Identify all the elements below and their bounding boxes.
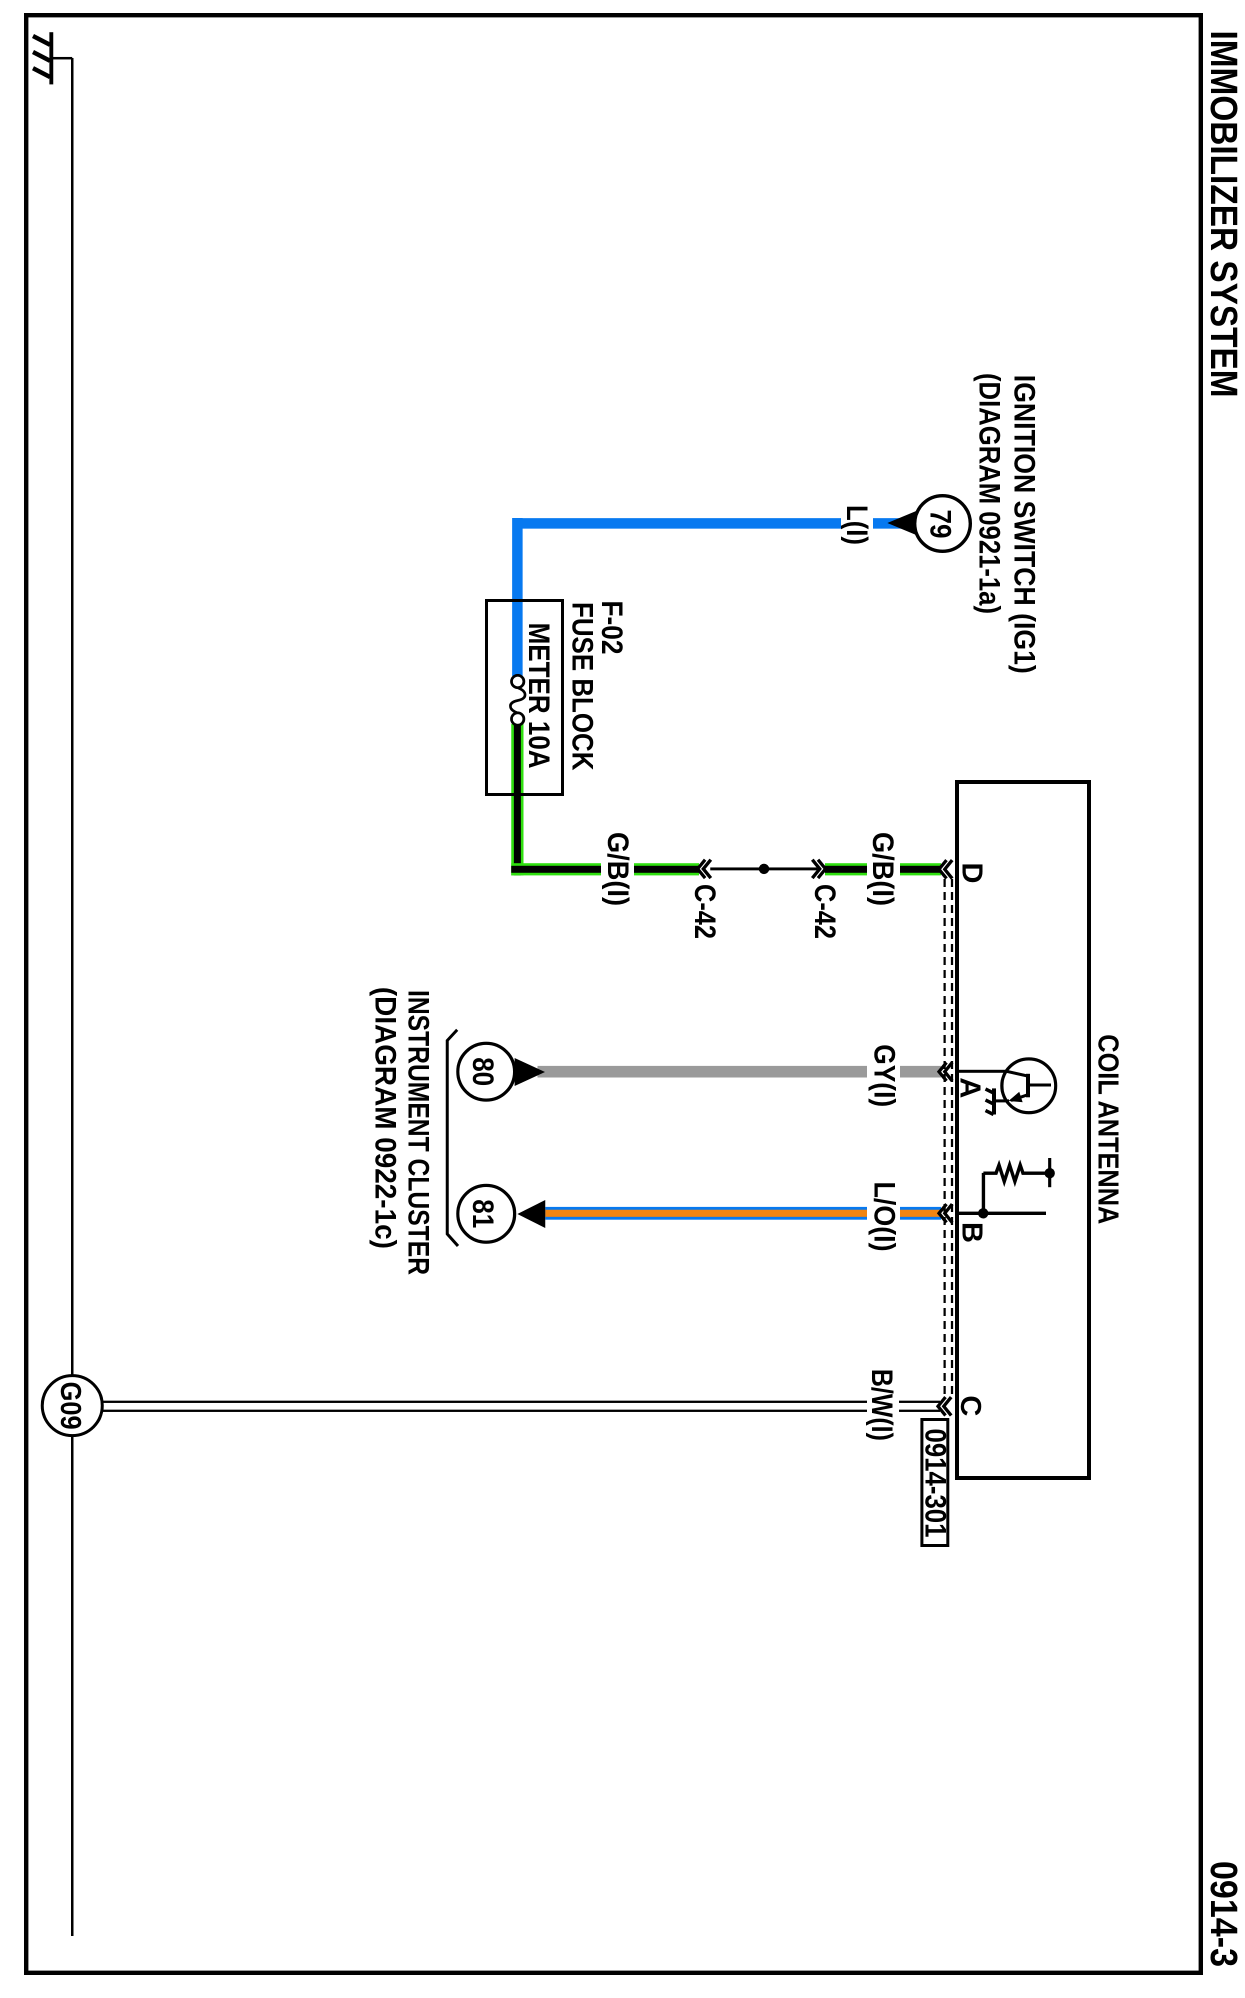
svg-text:L(I): L(I) bbox=[840, 505, 873, 545]
svg-text:COIL ANTENNA: COIL ANTENNA bbox=[1091, 1034, 1123, 1224]
svg-text:C-42: C-42 bbox=[688, 884, 721, 939]
svg-text:IMMOBILIZER SYSTEM: IMMOBILIZER SYSTEM bbox=[1202, 31, 1244, 398]
svg-text:FUSE BLOCK: FUSE BLOCK bbox=[566, 602, 599, 771]
svg-text:G09: G09 bbox=[54, 1382, 86, 1430]
svg-text:C: C bbox=[954, 1395, 986, 1416]
svg-text:GY(I): GY(I) bbox=[868, 1044, 901, 1107]
svg-text:IGNITION SWITCH (IG1): IGNITION SWITCH (IG1) bbox=[1007, 375, 1040, 674]
svg-text:C-42: C-42 bbox=[808, 884, 841, 939]
svg-text:INSTRUMENT CLUSTER: INSTRUMENT CLUSTER bbox=[401, 990, 434, 1275]
svg-text:G/B(I): G/B(I) bbox=[601, 832, 634, 906]
svg-text:81: 81 bbox=[466, 1199, 499, 1228]
svg-text:A: A bbox=[954, 1077, 986, 1098]
svg-text:80: 80 bbox=[466, 1057, 499, 1086]
svg-text:METER 10A: METER 10A bbox=[522, 623, 555, 769]
svg-text:(DIAGRAM 0921-1a): (DIAGRAM 0921-1a) bbox=[973, 373, 1006, 614]
svg-text:D: D bbox=[956, 863, 988, 884]
svg-text:0914-301: 0914-301 bbox=[918, 1429, 951, 1538]
svg-text:G/B(I): G/B(I) bbox=[866, 832, 899, 906]
svg-text:79: 79 bbox=[924, 510, 957, 539]
svg-text:L/O(I): L/O(I) bbox=[868, 1182, 901, 1252]
svg-text:0914-3: 0914-3 bbox=[1202, 1861, 1244, 1967]
svg-text:F-02: F-02 bbox=[595, 601, 628, 655]
svg-text:(DIAGRAM 0922-1c): (DIAGRAM 0922-1c) bbox=[369, 987, 402, 1249]
svg-text:B/W(I): B/W(I) bbox=[865, 1369, 898, 1441]
svg-text:B: B bbox=[956, 1222, 988, 1243]
